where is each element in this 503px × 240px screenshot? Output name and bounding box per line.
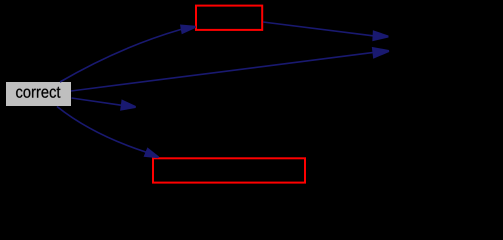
edge correct -> middle hidden node (wire) <box>72 98 136 111</box>
edge correct -> top red box (wire) <box>60 25 196 83</box>
edge correct -> bottom red box (wire) <box>57 107 159 159</box>
edge correct -> right hidden node (wire) <box>71 47 389 91</box>
node (red truncated box, top) <box>196 6 262 30</box>
node (red truncated box, bottom) <box>153 158 305 182</box>
edge top red box -> right hidden node (wire) <box>263 22 389 41</box>
node correct (current node, gray) <box>6 82 71 106</box>
